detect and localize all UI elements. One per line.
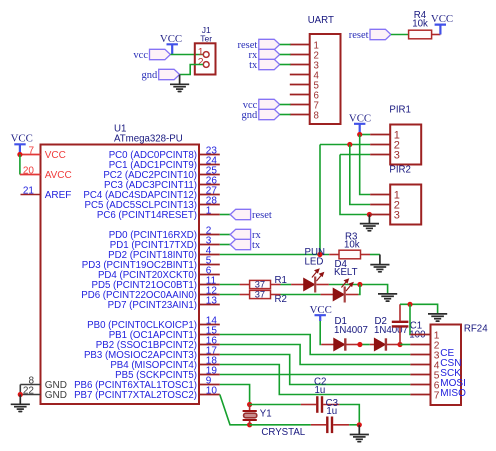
- wire PIR1 pin3 down to PIR2 pin3: [340, 155, 370, 215]
- svg-text:7: 7: [434, 390, 440, 401]
- LED D3 PUN: [291, 269, 329, 292]
- VCC symbol (R4): [431, 13, 453, 35]
- svg-text:LED: LED: [305, 257, 324, 268]
- svg-text:13: 13: [206, 295, 218, 306]
- wire R1 to D3: [281, 284, 292, 286]
- U1 pin 8 GND: [20, 375, 67, 391]
- junction dot C2/C3 ground: [357, 422, 362, 427]
- net label rx (U1 pin2): [230, 229, 261, 241]
- wire J1 pin 2 to gnd arrow: [180, 65, 203, 75]
- svg-text:gnd: gnd: [242, 110, 259, 121]
- VCC symbol (at J1): [160, 33, 182, 55]
- svg-text:20: 20: [23, 165, 35, 176]
- resistor R4: [409, 10, 441, 39]
- wire GND8 to GND22: [19, 385, 21, 395]
- net label reset (UART pin1): [237, 39, 279, 51]
- svg-text:R2: R2: [275, 294, 287, 305]
- svg-text:CRYSTAL: CRYSTAL: [261, 427, 305, 438]
- junction dot LED cathodes: [357, 282, 362, 287]
- connector UART: [290, 15, 341, 124]
- net label reset (R4): [349, 29, 391, 41]
- svg-text:7: 7: [28, 145, 34, 156]
- net label vcc (J1): [133, 49, 170, 61]
- resistor R3: [329, 231, 370, 258]
- wire junction down to RF24 pin1: [409, 304, 411, 334]
- U1 pin 21 AREF: [21, 185, 72, 201]
- U1 pin 7 VCC: [20, 145, 66, 161]
- svg-text:VCC: VCC: [45, 150, 66, 161]
- wire R3 to ground: [370, 254, 380, 256]
- wire PB4 to RF24 MISO: [220, 365, 410, 395]
- net label rx (UART pin2): [249, 49, 280, 61]
- net label tx (UART pin3): [249, 59, 280, 71]
- svg-text:reset: reset: [349, 30, 369, 41]
- UART pin stubs 1-8: [290, 45, 310, 115]
- junction dot PIR1 pin1: [357, 132, 362, 137]
- wire U1 pin9 XTAL1 to crystal top: [220, 385, 250, 405]
- net name PUN LED: [305, 247, 325, 268]
- svg-text:10k: 10k: [412, 18, 428, 29]
- diode D1 1N4007: [321, 316, 368, 351]
- svg-text:UART: UART: [308, 15, 334, 26]
- svg-text:10k: 10k: [344, 240, 360, 251]
- wire PIR1 pin3: [340, 154, 370, 156]
- wire U1 pin11 to R1: [220, 284, 240, 286]
- U1 right side pin stubs: [199, 155, 220, 395]
- wire D4 cathode up to D3 net: [358, 285, 360, 295]
- net label vcc (UART pin7): [243, 99, 280, 111]
- capacitor C2 1u: [301, 377, 340, 413]
- svg-text:ATmega328-PU: ATmega328-PU: [114, 134, 183, 145]
- svg-text:VCC: VCC: [310, 304, 332, 316]
- wire PIR pin2 net down to PD2: [319, 145, 321, 255]
- svg-text:gnd: gnd: [141, 70, 158, 81]
- IC U1 body: [41, 124, 200, 404]
- wire tx to UART pin 3: [280, 64, 291, 66]
- svg-text:VCC: VCC: [431, 13, 453, 25]
- svg-text:PIR1: PIR1: [389, 104, 411, 115]
- module PIR2: [370, 164, 421, 224]
- svg-text:37: 37: [255, 290, 265, 300]
- svg-text:10: 10: [206, 385, 218, 396]
- junction dot D2 cathode / C1 / RF24 pin2: [397, 342, 402, 347]
- wire reset to UART pin 1: [280, 44, 291, 46]
- svg-text:RF24: RF24: [464, 323, 488, 334]
- junction dot GND: [18, 392, 23, 397]
- svg-text:tx: tx: [252, 240, 261, 251]
- ground (LEDs): [378, 294, 397, 301]
- junction dot D1-D2: [357, 342, 362, 347]
- svg-text:8: 8: [314, 110, 319, 121]
- wire C1 top to ground and RF24 pin1: [400, 304, 438, 313]
- wire crystal bottom to C3: [250, 424, 311, 426]
- crystal Y1: [243, 405, 306, 439]
- U1 pin 20 AVCC: [20, 165, 72, 181]
- diode D2 1N4007: [370, 316, 408, 351]
- wire crystal top to C2: [250, 404, 301, 406]
- junction dot C1/gnd/RF24pin1: [407, 302, 412, 307]
- VCC symbol (PIR): [349, 113, 371, 135]
- svg-text:tx: tx: [249, 60, 258, 71]
- wire VCC to PIR1 pin1: [360, 134, 371, 136]
- net label tx (U1 pin3): [230, 239, 261, 251]
- junction dot PIR1 pin2: [347, 142, 352, 147]
- wire VCC to AVCC: [19, 155, 21, 175]
- wire D2 cathode to RF24 pin2: [400, 344, 410, 346]
- junction dot crystal top: [247, 402, 252, 407]
- RF24 pin stubs 1-7: [410, 335, 430, 395]
- junction dot VCC pin7: [17, 152, 22, 157]
- module PIR1: [370, 104, 421, 164]
- svg-text:PC6 (PCINT14RESET): PC6 (PCINT14RESET): [97, 210, 197, 221]
- wire U1 pin4 PD2 to R3: [220, 254, 329, 256]
- wire U1 pin12 to R2: [220, 294, 240, 296]
- VCC symbol (diodes): [310, 304, 332, 321]
- J1 pin 1: [203, 52, 209, 58]
- svg-text:3: 3: [394, 149, 400, 161]
- ground (R3): [370, 255, 389, 272]
- wire vcc to UART pin 7: [280, 104, 291, 106]
- junction dot crystal bottom: [247, 422, 252, 427]
- resistor R2 value 37: [240, 290, 287, 306]
- svg-text:vcc: vcc: [133, 50, 148, 61]
- svg-text:Y1: Y1: [260, 409, 272, 420]
- wire PB5 to RF24 SCK: [220, 374, 410, 376]
- RF24 pin names: [440, 348, 466, 399]
- wire PIR1 pin2 down to PIR2 pin2: [350, 145, 370, 205]
- svg-text:21: 21: [23, 185, 35, 196]
- svg-text:37: 37: [255, 280, 265, 290]
- ground (C1 / RF24 pin1): [428, 314, 447, 321]
- svg-text:PIR2: PIR2: [389, 164, 411, 175]
- svg-text:1: 1: [206, 205, 212, 216]
- svg-text:1N4007: 1N4007: [334, 325, 368, 336]
- J1 pin 2: [203, 62, 209, 68]
- UART pin numbers: [314, 40, 320, 121]
- wire vcc arrow to J1 pin 1: [170, 54, 203, 56]
- ground (C2/C3): [350, 425, 369, 442]
- wire VCC to D1 anode: [320, 321, 321, 345]
- svg-text:2: 2: [198, 56, 204, 68]
- junction dot PIR2 pin3: [367, 212, 372, 217]
- VCC symbol (U1): [11, 133, 33, 155]
- wire D3 cathode to ground: [329, 285, 388, 294]
- U1 right side pin numbers: [206, 145, 218, 396]
- wire PB1 to RF24 CE: [220, 335, 410, 355]
- svg-text:AVCC: AVCC: [45, 170, 72, 181]
- wire R2 to D4: [281, 294, 321, 296]
- ground (PIR2 pin3): [360, 215, 379, 231]
- svg-text:PD7 (PCINT23AIN1): PD7 (PCINT23AIN1): [108, 300, 197, 311]
- ground (J1): [170, 75, 189, 92]
- wire PB3 to RF24 MOSI: [220, 355, 410, 385]
- ground (U1): [11, 395, 30, 412]
- wire rx to UART pin 2: [280, 54, 291, 56]
- resistor R1 value 37: [240, 275, 287, 290]
- wire VCC down to PIR2 pin1: [360, 135, 371, 195]
- svg-text:VCC: VCC: [11, 133, 33, 145]
- wire PIR1 pin2 net: [320, 144, 370, 146]
- LED D4 KELT: [321, 259, 359, 303]
- svg-text:GND: GND: [45, 390, 67, 401]
- svg-text:1u: 1u: [315, 385, 326, 396]
- wire gnd to UART pin 8: [280, 114, 291, 116]
- wire PB2 to RF24 CSN: [220, 345, 410, 365]
- svg-text:22: 22: [23, 385, 35, 396]
- capacitor C3 1u: [311, 398, 349, 433]
- wire U1 pin2 to rx label: [220, 234, 230, 236]
- net label reset (U1 pin1): [230, 209, 272, 221]
- wire C3 right to gnd junction: [349, 424, 359, 426]
- svg-text:MISO: MISO: [440, 388, 466, 399]
- net label gnd (UART pin8): [242, 109, 280, 121]
- svg-text:1u: 1u: [326, 406, 337, 417]
- wire reset to R4: [391, 34, 409, 36]
- capacitor C1 100: [392, 304, 426, 344]
- svg-text:PB7 (PCINT7XTAL2TOSC2): PB7 (PCINT7XTAL2TOSC2): [74, 390, 197, 401]
- junction dot PUN net: [317, 252, 322, 257]
- svg-text:KELT: KELT: [334, 267, 358, 278]
- wire C2 right to gnd corner: [339, 405, 359, 425]
- svg-text:3: 3: [394, 209, 400, 221]
- wire U1 pin1 to reset label: [220, 214, 230, 216]
- RF24 pin numbers: [434, 330, 440, 401]
- U1 right side pin names: [74, 150, 197, 401]
- wire U1 pin3 to tx label: [220, 244, 230, 246]
- net label gnd (J1): [141, 69, 179, 81]
- U1 pin 22 GND: [20, 385, 67, 401]
- svg-text:reset: reset: [252, 210, 272, 221]
- connector J1: [195, 25, 216, 75]
- wire U1 pin10 XTAL2 diagonal to crystal bottom: [220, 395, 250, 425]
- wire D1 to D2: [358, 344, 370, 346]
- svg-text:Ter: Ter: [200, 34, 212, 44]
- svg-text:AREF: AREF: [45, 190, 72, 201]
